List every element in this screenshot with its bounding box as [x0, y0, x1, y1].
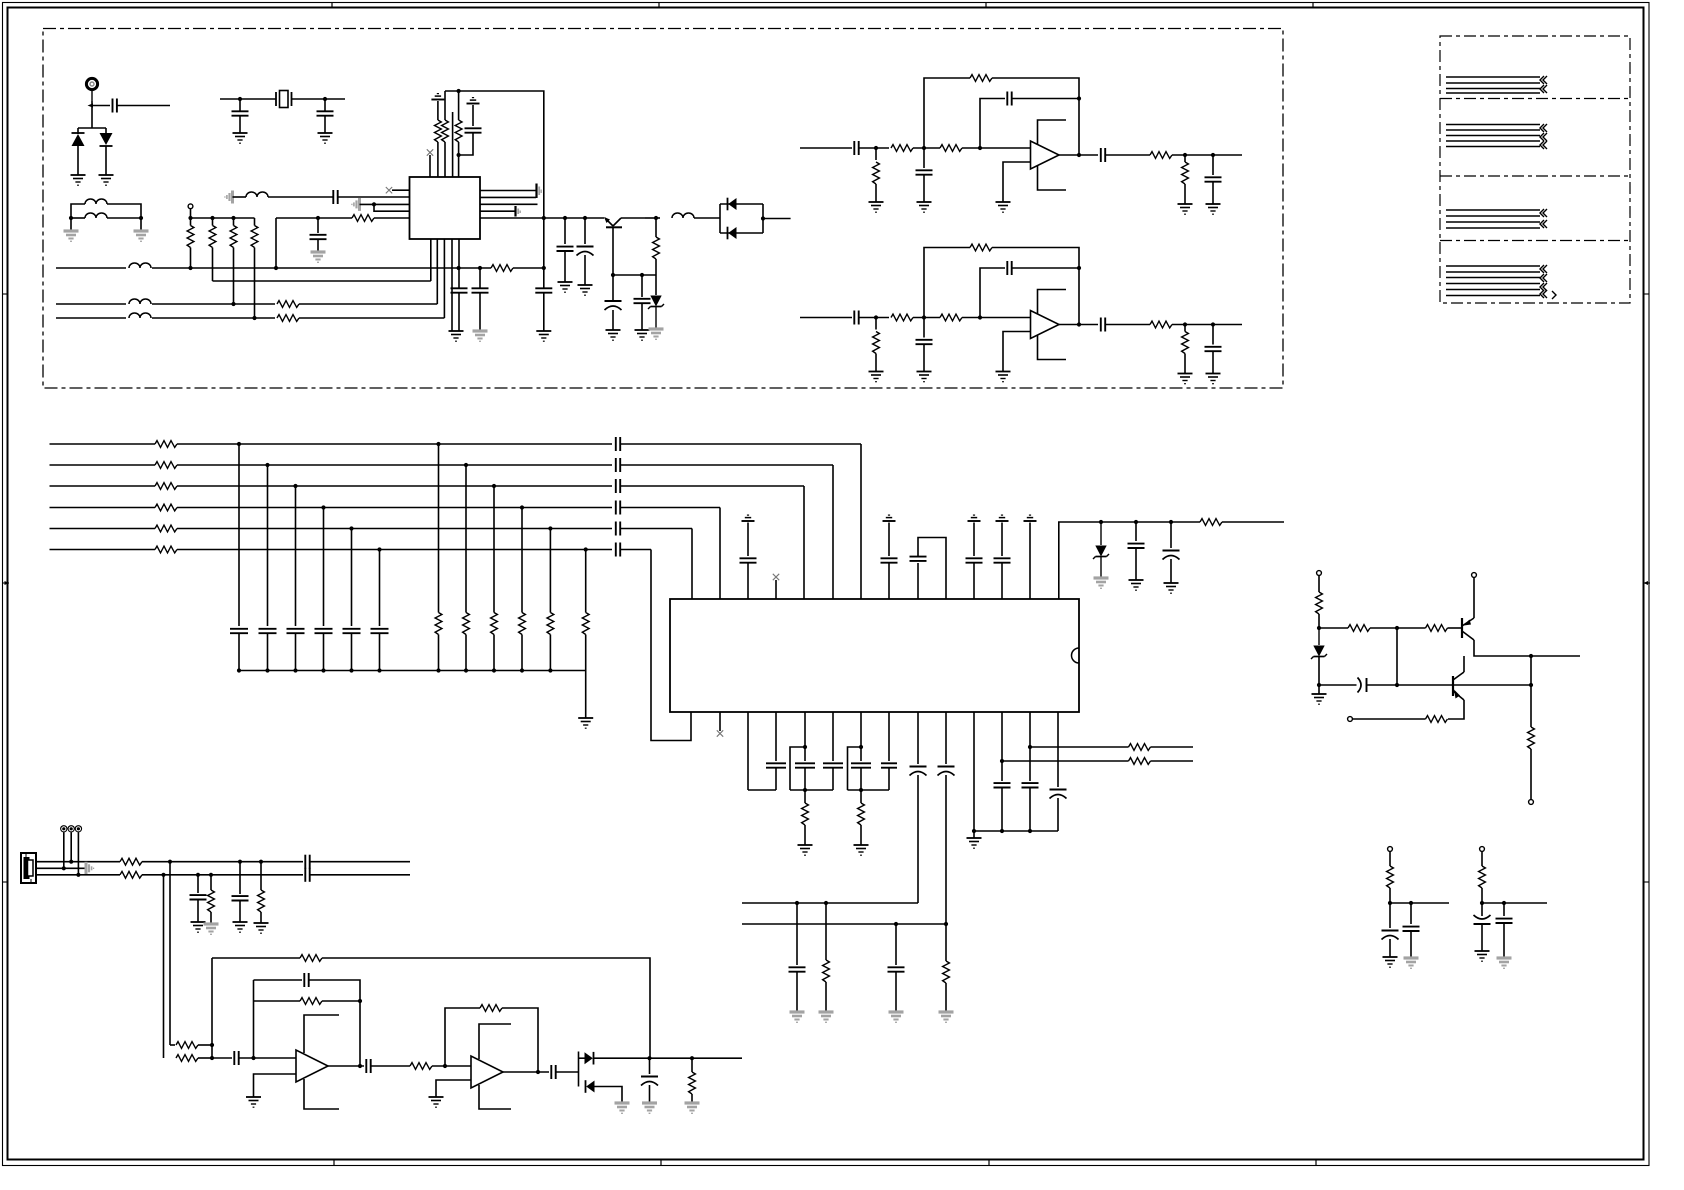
resistor	[155, 504, 177, 511]
capacitor C3	[317, 111, 334, 115]
wire	[213, 280, 431, 282]
power rail	[968, 515, 981, 521]
wire	[1135, 548, 1137, 580]
junction	[1388, 901, 1392, 905]
wire A	[513, 267, 544, 269]
wire	[1212, 155, 1214, 175]
wire	[641, 303, 643, 330]
wire	[875, 354, 877, 372]
resistor R43	[258, 890, 265, 912]
capacitor C44	[232, 896, 249, 900]
junction	[168, 860, 172, 864]
wire	[1370, 627, 1426, 629]
wire	[1029, 523, 1031, 600]
capacitor	[881, 763, 897, 767]
junction	[563, 216, 567, 220]
junction	[1077, 96, 1081, 100]
capacitor C22	[916, 170, 933, 174]
border tick	[333, 1160, 335, 1166]
wire	[140, 218, 142, 231]
resistor R30	[1316, 592, 1323, 614]
junction	[237, 442, 241, 446]
bus line	[621, 485, 805, 487]
capacitor	[616, 501, 620, 515]
wire	[584, 218, 586, 244]
resistor	[491, 613, 498, 635]
capacitor C34	[1101, 318, 1105, 332]
junction	[464, 668, 468, 672]
ground	[1129, 580, 1144, 590]
junction	[492, 668, 496, 672]
ground	[449, 331, 464, 341]
wire	[77, 128, 79, 134]
bus line	[50, 443, 156, 445]
capacitor	[230, 629, 248, 633]
wire	[163, 875, 165, 1058]
wire	[493, 486, 495, 613]
bus line	[177, 528, 612, 530]
wire	[1030, 746, 1129, 748]
ground	[996, 202, 1011, 212]
cable bundle line	[1446, 283, 1540, 285]
wire	[1100, 557, 1102, 578]
resistor R46	[300, 955, 322, 962]
signal ground	[615, 1103, 630, 1113]
wire	[295, 634, 297, 671]
resistor R47	[300, 998, 322, 1005]
junction	[321, 668, 325, 672]
bus line	[621, 549, 652, 551]
ferrite bead FB3	[75, 825, 82, 832]
ground	[917, 372, 932, 382]
capacitor	[616, 437, 620, 451]
bus line	[621, 443, 862, 445]
resistor	[155, 441, 177, 448]
junction	[894, 922, 898, 926]
inductor L4	[129, 263, 151, 268]
wire	[584, 255, 586, 285]
wire	[1172, 324, 1242, 326]
bundle chevron	[1540, 141, 1547, 149]
junction	[464, 463, 468, 467]
wire	[888, 768, 890, 790]
junction	[1395, 626, 1399, 630]
wire	[651, 550, 691, 741]
bus line	[50, 485, 156, 487]
wire	[521, 508, 523, 613]
ground	[635, 330, 650, 340]
signal ground	[64, 231, 79, 241]
wire	[859, 147, 889, 149]
wire	[1481, 903, 1483, 916]
wire	[888, 712, 890, 761]
capacitor C13	[634, 299, 651, 303]
resistor R22	[940, 145, 962, 152]
capacitor C30	[1128, 544, 1145, 548]
wire	[521, 635, 523, 671]
wire	[239, 901, 241, 923]
cable bundle line	[1446, 277, 1540, 279]
wire	[1172, 154, 1242, 156]
resistor R24	[1129, 758, 1151, 765]
wire	[239, 1057, 296, 1059]
resistor R26	[1182, 162, 1189, 184]
ground	[246, 1097, 261, 1107]
diode D7a	[585, 1052, 594, 1065]
wire	[543, 293, 545, 331]
resistor R22	[943, 961, 950, 983]
wire	[564, 218, 566, 244]
capacitor C23	[1007, 92, 1011, 106]
cable bundle line	[1446, 227, 1540, 229]
resistor R41	[120, 871, 142, 878]
wire	[923, 175, 925, 202]
wire	[804, 790, 806, 803]
power rail	[883, 515, 896, 521]
wire	[747, 523, 749, 557]
electrolytic capacitor C33	[938, 767, 955, 776]
junction	[492, 484, 496, 488]
ground	[99, 175, 114, 185]
resistor R33	[873, 332, 880, 354]
no-connect	[386, 187, 392, 193]
junction	[654, 216, 658, 220]
wire	[238, 444, 240, 626]
wire	[36, 867, 85, 869]
electrolytic capacitor C31	[1163, 551, 1180, 560]
wire	[825, 982, 827, 1012]
junction	[62, 866, 66, 870]
junction	[1317, 626, 1321, 630]
wire feedback	[992, 78, 1079, 155]
wire	[1410, 931, 1412, 958]
junction	[1211, 322, 1215, 326]
inductor L2	[85, 213, 107, 218]
border tick	[1644, 293, 1650, 295]
junction	[690, 1056, 694, 1060]
junction	[210, 1056, 214, 1060]
junction	[583, 216, 587, 220]
wire	[1503, 903, 1505, 916]
cable bundle line	[1446, 289, 1540, 291]
wire	[1029, 712, 1031, 781]
wire	[945, 712, 947, 764]
junction	[231, 302, 235, 306]
cable bundle line	[1446, 82, 1540, 84]
ground	[996, 372, 1011, 382]
power rail	[996, 515, 1009, 521]
wire	[480, 203, 538, 205]
inductor L7	[672, 213, 694, 218]
wire	[1001, 712, 1003, 781]
junction	[542, 266, 546, 270]
wire	[1001, 563, 1003, 599]
wire	[1396, 628, 1398, 685]
diode D4b	[728, 227, 737, 240]
wire	[594, 1057, 743, 1059]
wire feedback	[322, 1000, 360, 1002]
wire	[267, 465, 269, 626]
bus line	[621, 507, 721, 509]
junction	[265, 668, 269, 672]
resistor R35	[1150, 321, 1172, 328]
ground	[71, 175, 86, 185]
capacitor C41	[305, 855, 309, 869]
resistor	[155, 483, 177, 490]
capacitor	[740, 558, 757, 562]
wire	[444, 142, 446, 177]
wire	[585, 635, 587, 671]
wire	[374, 204, 410, 211]
cable bundle line	[1446, 295, 1540, 297]
bus line	[177, 464, 612, 466]
wire	[210, 912, 212, 924]
wire	[1135, 522, 1137, 541]
junction	[76, 873, 80, 877]
wire	[564, 251, 566, 282]
junction	[859, 788, 863, 792]
wire feedback	[1012, 267, 1079, 269]
wire	[1184, 155, 1186, 162]
capacitor	[881, 558, 898, 562]
wire	[1318, 657, 1320, 694]
capacitor	[616, 458, 620, 472]
wire	[105, 146, 107, 175]
diode D7b	[586, 1080, 595, 1093]
wire bus	[191, 217, 255, 219]
electrolytic capacitor C40	[1358, 678, 1367, 693]
junction	[252, 316, 256, 320]
wire	[351, 529, 353, 627]
wire out	[328, 1065, 364, 1067]
wire	[338, 196, 410, 198]
wire	[379, 550, 381, 627]
wire	[962, 317, 1030, 319]
capacitor C24	[1101, 148, 1105, 162]
power rail	[1024, 515, 1037, 521]
wire V-	[1038, 335, 1067, 359]
resistor R21	[823, 960, 830, 982]
wire	[437, 101, 439, 120]
transistor Q3	[1453, 656, 1464, 700]
junction	[978, 146, 982, 150]
junction	[316, 216, 320, 220]
wire	[70, 832, 72, 861]
wire	[1151, 746, 1194, 748]
wire	[804, 825, 806, 845]
signal ground	[1404, 958, 1419, 968]
wire	[210, 875, 212, 890]
wire	[796, 903, 798, 965]
wire	[452, 112, 454, 177]
junction	[293, 484, 297, 488]
ground	[1206, 204, 1221, 214]
main IC U4	[670, 599, 1079, 712]
wire	[107, 217, 141, 219]
resistor R31	[891, 314, 913, 321]
resistor R5	[352, 215, 374, 222]
wire	[438, 444, 440, 613]
power rail	[431, 94, 444, 100]
ground	[1164, 583, 1179, 593]
wire	[465, 465, 467, 613]
resistor	[230, 226, 237, 248]
cable bundle line	[1446, 129, 1540, 131]
wire feedback	[502, 1008, 538, 1072]
junction	[1077, 266, 1081, 270]
junction	[188, 216, 192, 220]
wire	[211, 958, 213, 1058]
cable bundle line	[1446, 140, 1540, 142]
wire	[190, 218, 192, 226]
junction	[1134, 520, 1138, 524]
capacitor C36	[994, 783, 1011, 787]
border arrow left	[3, 581, 10, 585]
resistor R25	[1150, 152, 1172, 159]
signal ground	[1497, 958, 1512, 968]
resistor R11	[277, 315, 299, 322]
wire	[323, 634, 325, 671]
no-connect	[427, 149, 433, 155]
wire	[324, 116, 326, 133]
bus line	[50, 507, 156, 509]
wire	[645, 217, 660, 219]
wire A	[152, 267, 491, 269]
junction	[647, 1056, 651, 1060]
wire	[198, 1057, 212, 1059]
connector group divider	[1440, 240, 1630, 242]
wire	[1003, 162, 1031, 202]
wire V-	[479, 1085, 511, 1109]
wire	[198, 1044, 212, 1046]
wire	[169, 862, 171, 1045]
wire	[379, 634, 381, 671]
inductor L3	[246, 192, 268, 197]
capacitor C10	[557, 247, 574, 251]
wire	[432, 1065, 471, 1067]
wire	[612, 275, 614, 301]
resistor R24	[970, 75, 992, 82]
rail	[848, 789, 890, 791]
IC notch	[1072, 648, 1080, 663]
junction	[1028, 829, 1032, 833]
wire	[1212, 182, 1214, 204]
capacitor	[966, 558, 983, 562]
wire	[859, 317, 889, 319]
capacitor	[766, 763, 786, 767]
no-connect	[773, 574, 779, 580]
ferrite bead FB1	[60, 825, 67, 832]
junction	[1317, 683, 1321, 687]
wire	[71, 204, 85, 218]
wire	[549, 635, 551, 671]
wire A	[56, 267, 126, 269]
wire	[295, 486, 297, 626]
wire	[860, 768, 862, 790]
junction	[1502, 901, 1506, 905]
wire	[621, 217, 645, 219]
bundle chevron	[1540, 283, 1547, 291]
wire	[655, 275, 657, 295]
wire	[875, 318, 877, 330]
wire	[239, 116, 241, 133]
junction	[1169, 520, 1173, 524]
wire out	[480, 217, 604, 219]
wire	[292, 98, 346, 100]
bundle chevron	[1540, 209, 1547, 217]
tuner IC U1	[410, 177, 481, 239]
capacitor C32	[916, 340, 933, 344]
wire in	[800, 317, 852, 319]
border tick	[1312, 3, 1314, 8]
wire	[775, 768, 777, 790]
wire	[585, 550, 587, 613]
antenna connector J1	[86, 78, 97, 89]
wire	[170, 1044, 175, 1046]
wire	[260, 912, 262, 923]
ground	[917, 202, 932, 212]
wire	[190, 248, 192, 269]
capacitor C33	[1007, 261, 1011, 275]
wire	[107, 204, 141, 218]
wire	[917, 712, 919, 764]
wire	[63, 832, 65, 868]
border tick	[3, 293, 8, 295]
capacitor C43	[190, 895, 207, 899]
terminal	[1480, 847, 1485, 852]
ground	[233, 133, 248, 143]
capacitor C48	[551, 1065, 555, 1079]
wire	[1170, 522, 1172, 548]
wire	[641, 275, 643, 297]
ground	[558, 282, 573, 292]
power rail	[742, 515, 755, 521]
wire	[443, 239, 445, 318]
wire in	[800, 147, 852, 149]
junction	[1529, 654, 1533, 658]
junction	[372, 202, 376, 206]
wire V+	[1038, 290, 1067, 314]
connector J2	[21, 853, 36, 883]
wire	[78, 127, 106, 129]
wire	[1473, 578, 1475, 619]
junction	[231, 216, 235, 220]
wire	[374, 217, 410, 219]
electrolytic capacitor C11	[577, 247, 594, 256]
wire	[437, 142, 439, 177]
wire	[212, 218, 214, 226]
wire	[1530, 656, 1532, 727]
wire	[825, 903, 827, 960]
ground	[1312, 694, 1327, 704]
resistor R10	[277, 301, 299, 308]
resistor	[435, 613, 442, 635]
junction	[1000, 829, 1004, 833]
wire	[860, 790, 862, 803]
wire	[479, 268, 481, 288]
cable bundle line	[1446, 215, 1540, 217]
wire	[70, 218, 72, 231]
cable bundle line	[1446, 92, 1540, 94]
ground	[318, 133, 333, 143]
wire	[595, 1087, 623, 1104]
wire	[212, 1057, 232, 1059]
wire	[458, 293, 460, 331]
wire	[913, 317, 940, 319]
rail	[748, 789, 776, 791]
wire	[945, 775, 947, 961]
wire	[1448, 627, 1463, 629]
